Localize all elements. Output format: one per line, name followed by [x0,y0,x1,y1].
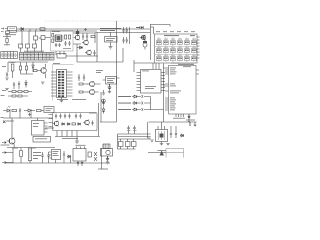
transistor Q3 [82,40,88,45]
resistor R6 [52,39,54,43]
wire [95,32,150,34]
input arrow 1 [2,151,6,153]
wire [8,62,48,74]
ground [108,92,111,94]
capacitor C13 polarized [108,84,112,92]
capacitor C6 [82,33,84,40]
resistor R2 [52,34,54,38]
wire [118,134,136,149]
resistor R22 [72,123,76,125]
bridge rectifier PT1 [73,145,86,161]
capacitor C12 [83,74,85,81]
transistor Q1 [140,35,146,40]
regulator U7 [103,77,120,85]
bus wire lower right [149,122,197,126]
keypad box SW1 [155,34,198,63]
capacitor C42 [47,152,49,163]
capacitor C33 [19,44,23,52]
ground [109,42,113,49]
wire keypad to U4 [134,60,159,72]
diode D12 [67,123,70,125]
module inner label [62,137,78,140]
capacitor C10 [13,82,15,89]
capacitor C27 [91,121,93,126]
switch S11 [185,49,190,53]
varistor RV1 [76,29,79,36]
switch S10 [178,49,183,53]
right margin text [186,119,195,122]
module boundary dashed [45,20,150,22]
SW row 2 [118,102,143,105]
transistor Q4 [85,50,91,55]
opto U11 [32,118,55,135]
keypad title [164,34,195,37]
connector J1 [1,27,17,37]
capacitor C2 [122,37,128,44]
diode D6 [24,109,35,112]
capacitor C36 [55,43,57,47]
switch S15 [171,57,176,61]
input arrow [2,141,6,143]
buzzer BZ1 [158,151,167,156]
capacitor C4 [64,41,66,46]
transistor Q11 [53,121,59,127]
switch S13 [157,57,162,61]
switch S4 [178,41,183,45]
ground [60,98,63,103]
input arrow 2 [2,161,6,163]
switch cells [157,41,197,61]
table caption [24,50,44,53]
U5 left pins [165,68,169,110]
diode D11 [61,123,64,125]
IC U4 DIP [137,70,166,94]
wire [73,33,95,44]
keypad column wires [159,37,194,62]
bus wires [118,134,151,139]
net wire vertical [163,64,165,123]
label [53,62,60,65]
ground [5,89,8,91]
capacitor C8 [93,50,95,56]
capacitor C15 [55,114,57,119]
IC U2A [56,35,62,42]
fuse F1 [40,28,45,30]
resistor R12 [79,91,83,93]
capacitor C3 polarized [143,39,147,50]
capacitor C5 [68,41,70,46]
capacitor C26 polarized [102,99,106,107]
resistor R14 [37,109,42,111]
wire [148,122,177,144]
wire drops [56,158,71,163]
capacitor C39 [77,161,79,166]
capacitor C17 [64,114,66,119]
switch S3 [171,41,176,45]
resistor R3 [65,35,67,39]
module U8 outline [53,113,98,131]
module outline [53,65,74,101]
resistor chain R9 [8,91,32,93]
capacitor C18 [68,114,70,119]
resistor R24 [88,152,92,157]
transistor Q2 [74,35,80,40]
diode D2 [77,46,83,49]
wire bus top [17,29,150,31]
regulator U3 [105,32,118,42]
wire [6,148,13,163]
sub box [57,54,66,59]
resistor R5 [91,36,95,38]
SW row 1 [118,95,143,98]
switch cell labels [157,39,196,56]
label [57,99,96,113]
long vertical wire [116,21,118,122]
node cross [28,113,32,117]
capacitor C29 [133,126,137,134]
wire arrow down [190,122,196,126]
capacitor C41 [41,152,43,163]
wire [97,33,123,63]
module U2 outline [51,31,74,52]
capacitor C25 polarized [106,156,109,160]
keypad right pins [197,37,200,58]
switch S7 [157,49,162,53]
keypad caption bottom [178,63,194,66]
resistor R1 [6,34,8,46]
switch S18 [192,57,197,61]
IC U9 [156,130,168,142]
transistor Q12 [83,120,89,126]
zener D3 [19,62,21,74]
capacitor C35 [33,44,37,52]
resistor R7 [25,62,27,74]
connector J4 [51,70,73,98]
diode D14 [136,26,144,29]
arrow sym [3,121,6,124]
ground [106,162,109,164]
connector table J3 [20,53,55,61]
relay RL1 [33,137,51,143]
resistor R23 [10,62,16,78]
resistor R8 [34,69,38,71]
wire [83,84,101,92]
wire [22,31,29,45]
capacitor C24 [63,151,65,163]
wire [77,44,97,62]
diode D10 [102,107,105,114]
row wires in keypad [155,47,197,55]
transistor Q10 [7,138,15,144]
switch S5 [185,41,190,45]
switch S1 [157,41,162,45]
capacitor C37 [58,43,60,47]
resistor R11 [79,83,83,85]
ground [160,144,163,146]
resistor chain R10 [8,95,28,97]
ground [41,82,44,84]
ground [5,78,8,80]
ground [187,120,190,121]
switch S14 [164,57,169,61]
IC U10 [49,150,61,160]
wire [129,27,131,44]
diode D7 [180,134,184,137]
wire [3,111,53,119]
wire [144,97,164,110]
capacitor C22 [170,130,172,138]
IC U5 label [171,62,179,65]
diode D1 [20,28,24,31]
enclosure outline [166,149,184,158]
capacitor C23 [175,130,177,138]
corner label [1,144,10,147]
wire [100,92,102,122]
U5 bottom pins [176,114,184,117]
capacitor C20 polarized [188,114,191,118]
bottom label [98,168,108,171]
zener D15 [25,80,27,88]
node cross [84,28,87,31]
capacitor C19 [75,114,77,119]
diode D4 [32,62,34,72]
capacitor C21 [79,114,81,119]
ground [102,90,105,95]
wire [39,38,51,53]
switch S17 [185,57,190,61]
U5 pin name labels [170,66,191,110]
wire [37,64,46,78]
capacitor C16 [59,114,61,119]
capacitor C1 [122,27,128,34]
wire stubs [33,152,41,158]
resistor network RN5 [28,148,31,163]
resistor R13 [12,109,17,111]
wire [12,118,14,148]
module left pins [49,115,53,127]
right stub pins [196,70,199,74]
switch S2 [164,41,169,45]
LED D5 [3,106,11,112]
switch S6 [192,41,197,45]
resistor R15 [20,148,23,164]
wire [5,148,110,164]
diode D8 [67,155,71,158]
resistor R4 [69,35,71,39]
transistor Q5 [38,68,46,74]
capacitor C40 [81,161,83,166]
capacitor C32 [132,142,137,150]
node tick [169,25,171,27]
switch S12 [192,49,197,53]
labels [12,147,36,150]
transistor Q6 [87,81,94,87]
connector table J2 [1,52,18,59]
capacitor C38 [18,81,20,89]
diode D13 [77,123,80,125]
label text [4,43,10,46]
wire [102,148,104,169]
labels left margin [2,66,6,91]
title text block [100,28,121,31]
wire [148,152,166,154]
capacitor C34 [26,44,30,52]
capacitor C7 [86,33,88,40]
wire [55,103,117,137]
wire [150,25,170,61]
transistor Q7 [87,89,94,95]
relay K2 [34,31,38,44]
switch S9 [171,49,176,53]
capacitor C28 [127,126,131,134]
switch S8 [164,49,169,53]
ground [75,137,79,143]
margin label [1,95,5,118]
IC U5 box [169,66,197,115]
node text [6,120,14,123]
diode D9 [94,152,97,161]
transistor Q9 [101,149,113,157]
capacitor C30 [119,142,124,150]
crystal Y2 [103,144,110,149]
capacitor C14 [19,108,21,113]
ground [166,144,169,146]
keypad header labels [156,30,195,33]
node tick [30,29,36,32]
capacitor C9 [6,72,8,77]
wire from keypad to U5 [164,68,166,86]
switch S16 [178,57,183,61]
ground [150,140,153,142]
capacitor C11 [78,74,80,81]
relay K3 [41,36,45,40]
box U7 [44,107,54,113]
node label text [96,70,103,73]
capacitor C31 [126,142,131,150]
module label [52,31,71,48]
SW row 3 [118,108,143,111]
wire [56,51,64,55]
